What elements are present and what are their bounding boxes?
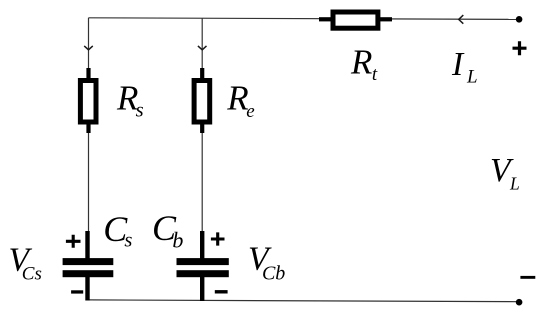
minus sign Cs polarity [71, 290, 83, 293]
svg-text:VCb: VCb [248, 241, 285, 285]
capacitor Cs top plate [63, 258, 114, 265]
wire top horizontal [89, 18, 520, 20]
minus sign bottom right terminal [520, 276, 535, 279]
capacitor Cb bottom plate [177, 270, 229, 277]
wire bottom horizontal [89, 300, 520, 302]
wire middle vertical lower (Cb bottom plate to bottom rail) [201, 272, 203, 301]
node dot top right terminal [516, 16, 523, 23]
wire middle vertical upper (junction to Cb top plate) [201, 18, 203, 262]
minus sign Cb polarity [215, 290, 228, 293]
svg-text:Cs: Cs [103, 209, 132, 252]
wire left vertical upper (node A to Cs top plate) [88, 18, 90, 262]
svg-text:VL: VL [490, 152, 520, 193]
plus sign Cs polarity [66, 235, 81, 248]
capacitor Cs top lead stub [85, 231, 89, 260]
arrow down on Rs branch [84, 46, 93, 50]
resistor Rs lead stubs [86, 68, 90, 82]
resistor Re lead stubs [200, 68, 204, 82]
resistor Rs [80, 81, 96, 123]
resistor Re [194, 81, 210, 123]
svg-text:Rs: Rs [116, 79, 144, 122]
capacitor Cb top plate [177, 258, 229, 265]
svg-text:VCs: VCs [9, 242, 42, 285]
svg-text:IL: IL [451, 46, 478, 87]
svg-text:Cb: Cb [152, 208, 183, 253]
arrow down on Re branch [198, 46, 207, 50]
svg-text:Rt: Rt [350, 43, 378, 85]
svg-text:Re: Re [226, 79, 254, 122]
plus sign top right terminal [513, 41, 527, 55]
capacitor Cs bottom lead stub [85, 277, 89, 301]
resistor Rt lead stubs [319, 17, 333, 21]
resistor Rt [333, 12, 378, 28]
capacitor Cb top lead stub [200, 231, 204, 260]
wire left vertical lower (Cs bottom plate to bottom rail) [88, 272, 90, 300]
node dot bottom right terminal [516, 299, 523, 306]
capacitor Cs bottom plate [63, 270, 114, 277]
arrow left on top wire (IL direction) [459, 15, 464, 24]
capacitor Cb bottom lead stub [200, 277, 204, 302]
plus sign Cb polarity [211, 232, 225, 245]
